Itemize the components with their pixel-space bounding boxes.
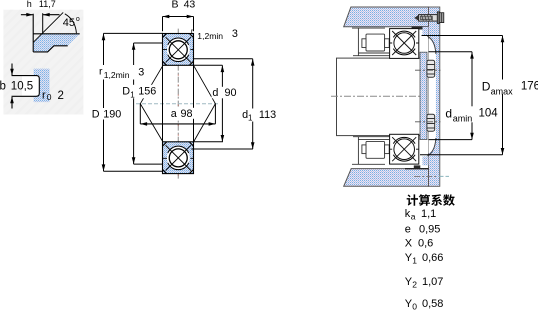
clamp nut top	[427, 60, 435, 77]
ring corner chamfers bottom	[163, 142, 194, 174]
svg-text:3: 3	[232, 28, 238, 40]
svg-text:0,58: 0,58	[422, 298, 443, 310]
svg-text:176: 176	[521, 81, 538, 93]
contact diamond left	[140, 65, 163, 142]
svg-text:d: d	[445, 106, 452, 120]
sleeve assembly bottom	[352, 137, 390, 165]
svg-text:amax: amax	[491, 86, 514, 96]
d1 113 dimension	[194, 58, 253, 60]
svg-text:190: 190	[103, 108, 121, 120]
svg-text:1,1: 1,1	[421, 208, 436, 220]
horizontal centerline	[136, 103, 219, 105]
svg-text:0: 0	[412, 302, 417, 310]
bottom ball	[169, 149, 187, 167]
shaft axis	[331, 95, 420, 97]
label D_amax 176	[481, 80, 514, 95]
ring corner section fill	[33, 34, 79, 52]
shaft	[337, 58, 422, 136]
svg-text:2: 2	[58, 90, 64, 102]
svg-text:43: 43	[184, 0, 196, 10]
bottom ring section	[163, 142, 194, 174]
cover slab	[429, 7, 440, 186]
label D 190	[91, 108, 123, 120]
clamp bolt axis top	[415, 69, 441, 71]
svg-text:b: b	[0, 80, 6, 92]
svg-text:1: 1	[248, 114, 253, 123]
cover bell curve bottom	[427, 138, 436, 156]
h extension line right	[42, 13, 44, 33]
svg-text:113: 113	[259, 109, 276, 121]
svg-text:d: d	[212, 87, 218, 99]
svg-text:e: e	[405, 224, 411, 236]
cover hollow (white)	[429, 39, 436, 154]
side face lines between sections	[162, 65, 164, 142]
groove white cut	[22, 76, 39, 97]
svg-text:r: r	[42, 89, 46, 101]
top bolt	[414, 12, 444, 24]
a 98 dimension	[139, 104, 141, 124]
D 190 dimension	[104, 32, 164, 34]
svg-text:amin: amin	[453, 114, 473, 124]
label D1 156	[122, 85, 159, 99]
housing block	[344, 7, 429, 27]
svg-text:45: 45	[63, 17, 75, 29]
ring bar fill	[34, 69, 50, 102]
clamp bolt axis bottom	[415, 121, 441, 123]
end plate (clamp) top/bottom	[420, 52, 427, 139]
bottom bolt axis line	[414, 175, 437, 177]
h dim arrow left	[21, 14, 33, 16]
groove outline	[12, 76, 40, 97]
top ball	[169, 41, 187, 59]
angle arc	[65, 14, 77, 33]
svg-text:0: 0	[47, 92, 52, 102]
top ring section	[163, 33, 194, 65]
svg-text:98: 98	[181, 108, 193, 120]
svg-text:0,95: 0,95	[419, 224, 440, 236]
race arcs top section	[168, 38, 189, 45]
svg-text:1: 1	[412, 256, 417, 266]
raceway groove bottom (white ring)	[167, 147, 190, 170]
45 deg construction line	[33, 12, 63, 42]
vertical axis line	[177, 29, 179, 179]
svg-text:156: 156	[138, 86, 156, 98]
svg-text:0,66: 0,66	[422, 252, 443, 264]
ring split ticks bottom	[163, 157, 194, 159]
label a 98	[170, 108, 195, 119]
race arcs bottom section	[168, 146, 189, 153]
svg-text:11,7: 11,7	[39, 0, 56, 9]
svg-text:h: h	[27, 0, 32, 9]
svg-text:B: B	[172, 0, 179, 10]
b dim arrow bottom	[11, 97, 13, 109]
bearing bottom (mounted)	[390, 134, 419, 164]
shape outline	[33, 14, 79, 52]
svg-text:0,6: 0,6	[418, 238, 433, 250]
b dim arrow top	[11, 64, 13, 76]
svg-text:D: D	[92, 108, 100, 120]
Damax dimension	[422, 35, 503, 37]
svg-text:2: 2	[412, 280, 417, 290]
svg-text:D: D	[482, 79, 491, 93]
svg-text:D: D	[122, 86, 130, 98]
svg-text:90: 90	[225, 87, 237, 99]
svg-text:1: 1	[130, 91, 135, 100]
svg-text:1,2min: 1,2min	[104, 70, 130, 80]
contact X through top ball	[166, 37, 191, 62]
svg-text:X: X	[405, 238, 413, 250]
bearing top (mounted)	[390, 29, 419, 59]
ring split ticks top	[163, 48, 194, 50]
svg-text:3: 3	[138, 67, 144, 79]
svg-text:o: o	[76, 16, 80, 23]
label d 90	[212, 87, 238, 99]
h dim arrow right	[43, 14, 60, 16]
cover nose bottom	[423, 156, 429, 165]
damin dimension	[429, 51, 472, 53]
B dimension	[163, 16, 194, 18]
svg-text:a: a	[171, 108, 177, 120]
svg-text:r: r	[99, 65, 103, 77]
r 1,2min 3 label (left)	[99, 65, 145, 80]
svg-text:104: 104	[479, 108, 499, 120]
contact X through bottom ball	[166, 145, 191, 170]
label d_amin 104	[445, 106, 476, 122]
label d1 113	[242, 109, 281, 122]
ring corner chamfers top	[163, 33, 194, 65]
heading 计算系数 (calculation factors, embedded glyph paths)	[407, 194, 455, 206]
gray background panel	[3, 10, 83, 115]
clamp nut bottom	[427, 114, 435, 131]
svg-text:10,5: 10,5	[11, 80, 33, 92]
sleeve assembly top	[352, 28, 390, 56]
svg-text:a: a	[411, 212, 416, 222]
bottom housing block	[344, 169, 429, 187]
cover nose top	[423, 27, 429, 36]
housing lip bar	[412, 26, 429, 29]
cover bell curve top	[427, 36, 436, 54]
svg-text:1,2min: 1,2min	[197, 31, 223, 41]
contact diamond right	[194, 65, 216, 142]
D1 156 dimension	[134, 42, 163, 44]
raceway groove top (white ring)	[167, 38, 190, 61]
svg-text:1,07: 1,07	[422, 276, 443, 288]
d 90 dimension	[194, 64, 223, 66]
bottom housing lip	[414, 165, 421, 168]
